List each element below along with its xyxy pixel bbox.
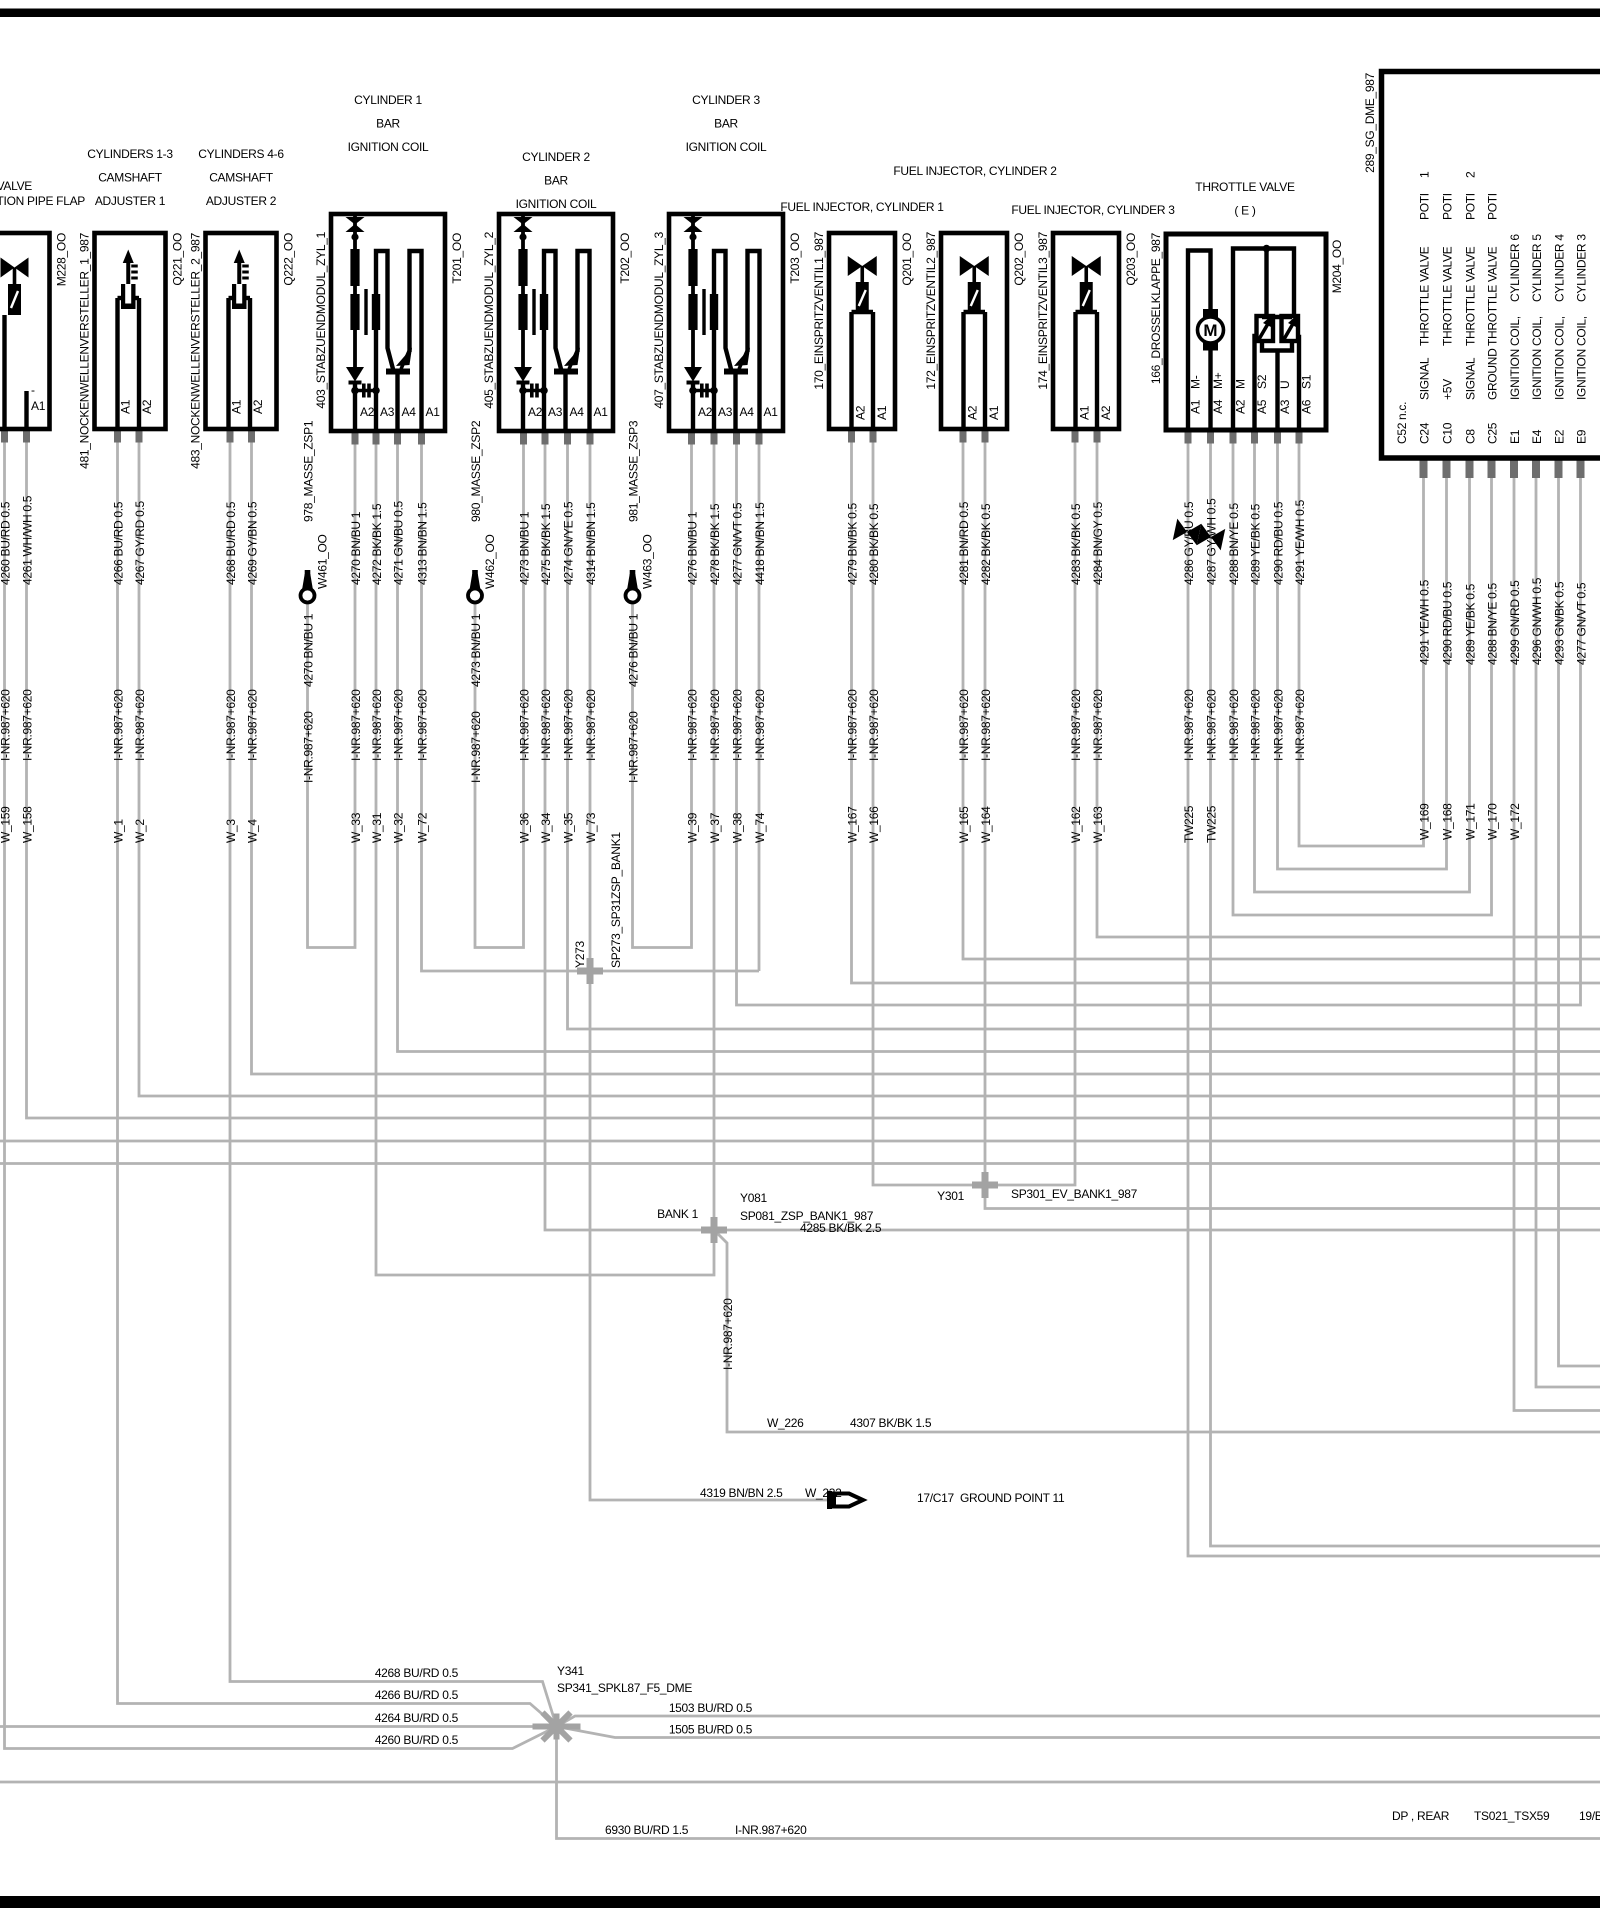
potentiometer 1 M204 <box>1257 316 1274 341</box>
svg-text:A2: A2 <box>698 405 713 419</box>
svg-text:W_158: W_158 <box>21 806 35 843</box>
svg-text:W_37: W_37 <box>708 812 722 843</box>
pin stubs Q202 <box>960 429 989 443</box>
svg-text:I-NR.987+620: I-NR.987+620 <box>731 689 745 761</box>
svg-text:I-NR.987+620: I-NR.987+620 <box>349 689 363 761</box>
svg-text:W461_OO: W461_OO <box>316 534 330 589</box>
wire full-width y=1782 <box>0 1781 1600 1784</box>
svg-text:4271 GN/BU 0.5: 4271 GN/BU 0.5 <box>392 501 406 585</box>
wire 4267 GY/RD Q221 A2 <box>139 429 1600 1096</box>
svg-text:CYLINDER 4: CYLINDER 4 <box>1553 234 1567 302</box>
ground terminal arrow 17/C17 <box>827 1491 863 1509</box>
svg-text:M: M <box>1234 379 1248 389</box>
label wire 4275 column <box>539 503 553 843</box>
svg-text:4299 GN/RD 0.5: 4299 GN/RD 0.5 <box>1508 580 1522 665</box>
label wire 4283 column <box>1069 503 1083 843</box>
svg-text:POTI: POTI <box>1441 193 1455 220</box>
svg-text:IGNITION COIL,: IGNITION COIL, <box>1575 316 1589 400</box>
svg-text:IGNITION COIL,: IGNITION COIL, <box>1553 316 1567 400</box>
svg-text:THROTTLE VALVE: THROTTLE VALVE <box>1486 246 1500 346</box>
wire 4289 YE/BK M204 A5 to DME C8 <box>1255 430 1470 892</box>
svg-text:A1: A1 <box>426 405 441 419</box>
svg-text:405_STABZUENDMODUL_ZYL_2: 405_STABZUENDMODUL_ZYL_2 <box>482 231 496 408</box>
svg-text:I-NR.987+620: I-NR.987+620 <box>562 689 576 761</box>
throttle valve M204 box <box>1166 234 1326 430</box>
svg-text:TW225: TW225 <box>1205 805 1219 843</box>
svg-text:I-NR.987+620: I-NR.987+620 <box>133 689 147 761</box>
svg-text:4286 GY/BU 0.5: 4286 GY/BU 0.5 <box>1182 501 1196 585</box>
wire 4260 BU/RD M228 pin <box>5 429 557 1749</box>
label masse wire 978 column <box>302 420 330 783</box>
wire 4272 BK/BK T201 A3 <box>376 431 714 1275</box>
svg-text:4276 BN/BU 1: 4276 BN/BU 1 <box>627 613 641 687</box>
svg-text:170_EINSPRITZVENTIL1_987: 170_EINSPRITZVENTIL1_987 <box>812 231 826 389</box>
svg-text:I-NR.987+620: I-NR.987+620 <box>1069 689 1083 761</box>
svg-text:W_33: W_33 <box>349 812 363 843</box>
svg-text:I-NR.987+620: I-NR.987+620 <box>302 711 316 783</box>
svg-text:4296 GN/WH 0.5: 4296 GN/WH 0.5 <box>1530 577 1544 665</box>
svg-text:CYLINDER 2: CYLINDER 2 <box>522 150 590 164</box>
svg-text:E9: E9 <box>1575 429 1589 444</box>
label DME pin E2 <box>1553 234 1567 444</box>
svg-text:4319 BN/BN 2.5: 4319 BN/BN 2.5 <box>700 1486 783 1500</box>
svg-text:1: 1 <box>1418 171 1432 178</box>
svg-text:DP , REAR: DP , REAR <box>1392 1809 1450 1823</box>
svg-text:S2: S2 <box>1255 374 1269 389</box>
svg-text:4281 BN/RD 0.5: 4281 BN/RD 0.5 <box>957 501 971 585</box>
svg-text:A1: A1 <box>594 405 609 419</box>
twisted-pair marker TW225 <box>1173 519 1226 551</box>
svg-text:W_166: W_166 <box>867 806 881 843</box>
svg-text:A2: A2 <box>251 399 265 414</box>
label wire 4418 column <box>753 502 767 843</box>
label wire 4270 column <box>349 511 363 843</box>
solenoid valve Q221 camshaft adjuster box <box>95 233 166 429</box>
svg-text:4289 YE/BK 0.5: 4289 YE/BK 0.5 <box>1249 503 1263 585</box>
wire 4278 BK/BK T203 A3 <box>713 431 716 1230</box>
svg-text:W_38: W_38 <box>731 812 745 843</box>
svg-text:I-NR.987+620: I-NR.987+620 <box>1293 689 1307 761</box>
svg-text:4272 BK/BK 1.5: 4272 BK/BK 1.5 <box>370 503 384 585</box>
label DME pin E1 <box>1508 234 1522 444</box>
label wire 4269 column <box>246 501 260 843</box>
wire 4261 WH/WH M228 A1 <box>27 429 1600 1118</box>
ignition coil T202 box <box>499 214 613 431</box>
label 6930 BU/RD <box>605 1823 807 1837</box>
svg-text:W_74: W_74 <box>753 812 767 843</box>
svg-text:W_168: W_168 <box>1441 803 1455 840</box>
wire 4274 GN/YE T202 A4 <box>568 431 1600 1029</box>
svg-text:W462_OO: W462_OO <box>483 534 497 589</box>
svg-text:172_EINSPRITZVENTIL2_987: 172_EINSPRITZVENTIL2_987 <box>924 231 938 389</box>
label wire 4286 column <box>1182 501 1196 843</box>
wire 4279 BN/BK Q201 A2 <box>852 429 1600 983</box>
svg-text:I-NR.987+620: I-NR.987+620 <box>584 689 598 761</box>
svg-text:4293 GN/BK 0.5: 4293 GN/BK 0.5 <box>1553 581 1567 665</box>
wire 4299 GN/RD DME E1 <box>1514 462 1600 1411</box>
fuel injector Q202 box <box>941 233 1007 429</box>
svg-text:W_39: W_39 <box>686 812 700 843</box>
svg-text:A1: A1 <box>1078 405 1092 420</box>
svg-text:I-NR.987+620: I-NR.987+620 <box>721 1298 735 1370</box>
svg-text:19/B: 19/B <box>1579 1809 1600 1823</box>
motor M204 <box>1203 309 1218 318</box>
wire 4314 BN/BN T202 A1 / SP273 ground drop <box>590 431 832 1500</box>
svg-text:CYLINDER 3: CYLINDER 3 <box>1575 234 1589 302</box>
svg-text:4280 BK/BK 0.5: 4280 BK/BK 0.5 <box>867 503 881 585</box>
svg-text:U: U <box>1278 381 1292 389</box>
svg-text:ADJUSTER 1: ADJUSTER 1 <box>95 194 166 208</box>
svg-text:4282 BK/BK 0.5: 4282 BK/BK 0.5 <box>979 503 993 585</box>
svg-text:174_EINSPRITZVENTIL3_987: 174_EINSPRITZVENTIL3_987 <box>1036 231 1050 389</box>
svg-text:4285 BK/BK 2.5: 4285 BK/BK 2.5 <box>800 1221 882 1235</box>
svg-text:403_STABZUENDMODUL_ZYL_1: 403_STABZUENDMODUL_ZYL_1 <box>314 231 328 408</box>
svg-text:I-NR.987+620: I-NR.987+620 <box>957 689 971 761</box>
svg-text:W_172: W_172 <box>1508 803 1522 840</box>
svg-text:A2: A2 <box>854 405 868 420</box>
wire 4270 BN/BU masse ZSP1 <box>308 431 356 948</box>
svg-text:A3: A3 <box>1278 399 1292 414</box>
svg-text:W_164: W_164 <box>979 806 993 843</box>
svg-text:A2: A2 <box>140 399 154 414</box>
svg-text:A1: A1 <box>875 405 889 420</box>
svg-text:Q221_OO: Q221_OO <box>171 233 185 286</box>
label wire 4276 column <box>686 511 700 843</box>
svg-text:-: - <box>31 383 35 397</box>
label Y301 splice <box>937 1187 1137 1203</box>
svg-text:Y341: Y341 <box>557 1664 584 1678</box>
label wire 4284 column <box>1091 501 1105 843</box>
svg-text:TS021_TSX59: TS021_TSX59 <box>1474 1809 1550 1823</box>
svg-text:FUEL INJECTOR, CYLINDER 3: FUEL INJECTOR, CYLINDER 3 <box>1011 203 1175 217</box>
wire 4418 BN/BN T203 A1 <box>758 431 761 971</box>
svg-text:M+: M+ <box>1211 372 1225 389</box>
svg-text:4273 BN/BU 1: 4273 BN/BU 1 <box>518 511 532 585</box>
label 4319 ground point <box>700 1486 1065 1505</box>
svg-text:S1: S1 <box>1300 374 1314 389</box>
label DME pin C24 <box>1418 171 1432 444</box>
svg-text:IGNITION COIL,: IGNITION COIL, <box>1508 316 1522 400</box>
svg-text:W_35: W_35 <box>562 812 576 843</box>
label DME wire 4277 column <box>1575 582 1589 665</box>
label wire 4268 column <box>224 501 238 843</box>
svg-text:4268 BU/RD 0.5: 4268 BU/RD 0.5 <box>375 1666 459 1680</box>
label DME wire 4296 column <box>1530 577 1544 665</box>
svg-text:6930 BU/RD 1.5: 6930 BU/RD 1.5 <box>605 1823 689 1837</box>
label Y341 splice <box>557 1664 692 1695</box>
pin stubs Q203 <box>1072 429 1101 443</box>
svg-text:Y301: Y301 <box>937 1189 964 1203</box>
wire entering page left y=1141 <box>0 1140 1600 1143</box>
wire 4287 GY/WH M204 A4 M+ <box>1211 430 1600 1546</box>
svg-text:4288 BN/YE 0.5: 4288 BN/YE 0.5 <box>1486 583 1500 665</box>
svg-text:4275 BK/BK 1.5: 4275 BK/BK 1.5 <box>539 503 553 585</box>
svg-text:CYLINDER 1: CYLINDER 1 <box>354 93 422 107</box>
label DME wire 4293 column <box>1553 581 1567 665</box>
wire 4264 BU/RD entering left <box>0 1725 557 1728</box>
svg-text:A4: A4 <box>402 405 417 419</box>
top border bar <box>0 9 1600 18</box>
svg-text:BAR: BAR <box>714 117 738 131</box>
svg-text:4307 BK/BK 1.5: 4307 BK/BK 1.5 <box>850 1416 932 1430</box>
svg-text:4276 BN/BU 1: 4276 BN/BU 1 <box>686 511 700 585</box>
svg-text:I-NR.987+620: I-NR.987+620 <box>846 689 860 761</box>
svg-text:Y081: Y081 <box>740 1191 767 1205</box>
svg-text:I-NR.987+620: I-NR.987+620 <box>1205 689 1219 761</box>
svg-text:SP301_EV_BANK1_987: SP301_EV_BANK1_987 <box>1011 1187 1138 1201</box>
svg-text:M-: M- <box>1189 375 1203 389</box>
svg-text:I-NR.987+620: I-NR.987+620 <box>867 689 881 761</box>
svg-text:Q202_OO: Q202_OO <box>1012 233 1026 286</box>
valve M228 induction pipe flap box <box>0 233 50 429</box>
svg-text:C52: C52 <box>1395 422 1409 444</box>
svg-text:A1: A1 <box>1189 399 1203 414</box>
svg-text:166_DROSSELKLAPPE_987: 166_DROSSELKLAPPE_987 <box>1149 232 1163 384</box>
label wire 4313 column <box>416 502 430 843</box>
svg-text:4278 BK/BK 1.5: 4278 BK/BK 1.5 <box>708 503 722 585</box>
svg-text:+5V: +5V <box>1441 379 1455 400</box>
label wire 4314 column <box>584 502 598 843</box>
svg-text:IGNITION COIL,: IGNITION COIL, <box>1530 316 1544 400</box>
svg-text:4269 GY/BN 0.5: 4269 GY/BN 0.5 <box>246 501 260 585</box>
svg-text:I-NR.987+620: I-NR.987+620 <box>627 711 641 783</box>
pin stubs Q221 <box>114 429 143 443</box>
svg-text:I-NR.987+620: I-NR.987+620 <box>469 711 483 783</box>
wire 4293 GN/BK DME E2 <box>1559 462 1600 1366</box>
svg-text:W_2: W_2 <box>133 819 147 843</box>
svg-text:483_NOCKENWELLENVERSTELLER_2_9: 483_NOCKENWELLENVERSTELLER_2_987 <box>189 232 203 468</box>
svg-text:4261 WH/WH 0.5: 4261 WH/WH 0.5 <box>21 495 35 585</box>
svg-text:I-NR.987+620: I-NR.987+620 <box>686 689 700 761</box>
svg-text:C10: C10 <box>1441 422 1455 444</box>
svg-text:2: 2 <box>1464 171 1478 178</box>
wire 4313 BN/BN T201 A1 <box>422 431 760 971</box>
svg-text:I-NR.987+620: I-NR.987+620 <box>708 689 722 761</box>
svg-text:4289 YE/BK 0.5: 4289 YE/BK 0.5 <box>1464 583 1478 665</box>
ring terminal W462 <box>468 570 482 603</box>
wire 1505 BU/RD splice output <box>557 1727 1600 1738</box>
svg-text:I-NR.987+620: I-NR.987+620 <box>735 1823 807 1837</box>
wire 4271 GN/BU T201 A4 <box>398 431 1600 1052</box>
svg-text:SP341_SPKL87_F5_DME: SP341_SPKL87_F5_DME <box>557 1681 692 1695</box>
label DME wire 4288 column <box>1486 583 1500 840</box>
wire 1503 BU/RD splice output <box>557 1716 1600 1727</box>
label wire 4261 column <box>21 495 35 843</box>
label DME pin E4 <box>1530 234 1544 444</box>
pin stubs T203 <box>688 431 763 445</box>
svg-text:POTI: POTI <box>1418 193 1432 220</box>
svg-text:W_232: W_232 <box>805 1486 842 1500</box>
pin stubs T201 <box>352 431 426 445</box>
svg-text:W_162: W_162 <box>1069 806 1083 843</box>
bottom border bar <box>0 1896 1600 1908</box>
label DME pin C25 <box>1486 193 1500 444</box>
svg-text:W_226: W_226 <box>767 1416 804 1430</box>
label wire 4281 column <box>957 501 971 843</box>
svg-text:4290 RD/BU 0.5: 4290 RD/BU 0.5 <box>1441 581 1455 665</box>
svg-text:E4: E4 <box>1530 429 1544 444</box>
svg-text:SIGNAL: SIGNAL <box>1464 357 1478 400</box>
svg-text:C8: C8 <box>1464 429 1478 444</box>
svg-text:I-NR.987+620: I-NR.987+620 <box>370 689 384 761</box>
svg-text:4277 GN/VT 0.5: 4277 GN/VT 0.5 <box>731 502 745 585</box>
svg-text:T202_OO: T202_OO <box>618 233 632 284</box>
svg-text:4266 BU/RD 0.5: 4266 BU/RD 0.5 <box>375 1688 459 1702</box>
svg-text:I-NR.987+620: I-NR.987+620 <box>1272 689 1286 761</box>
svg-text:W_31: W_31 <box>370 812 384 843</box>
svg-text:4313 BN/BN 1.5: 4313 BN/BN 1.5 <box>416 502 430 585</box>
label wire 4273 column <box>518 511 532 843</box>
svg-text:4270 BN/BU 1: 4270 BN/BU 1 <box>349 511 363 585</box>
svg-text:IGNITION COIL: IGNITION COIL <box>348 140 429 154</box>
label wire 4287 column <box>1205 498 1219 843</box>
label wire 4278 column <box>708 503 722 843</box>
svg-text:4274 GN/YE 0.5: 4274 GN/YE 0.5 <box>562 501 576 585</box>
label masse wire 981 column <box>627 420 655 783</box>
label DME wire 4289 column <box>1464 583 1478 840</box>
label Y273 SP273 <box>573 832 623 968</box>
svg-text:E1: E1 <box>1508 429 1522 444</box>
wire 4296 GN/WH DME E4 <box>1536 462 1600 1387</box>
svg-text:4277 GN/VT 0.5: 4277 GN/VT 0.5 <box>1575 582 1589 665</box>
svg-text:4270 BN/BU 1: 4270 BN/BU 1 <box>302 613 316 687</box>
pin stubs Q222 <box>227 429 256 443</box>
svg-text:FUEL INJECTOR, CYLINDER 2: FUEL INJECTOR, CYLINDER 2 <box>893 164 1057 178</box>
junction Y301 SP301_EV_BANK1_987 <box>972 1172 998 1198</box>
svg-text:BANK 1: BANK 1 <box>657 1207 699 1221</box>
svg-text:W_159: W_159 <box>0 806 13 843</box>
svg-text:981_MASSE_ZSP3: 981_MASSE_ZSP3 <box>627 420 641 522</box>
svg-text:A2: A2 <box>1234 399 1248 414</box>
wire 4269 GY/BN Q222 A2 <box>252 429 1600 1074</box>
wire 4290 RD/BU M204 A3 to DME C10 <box>1278 430 1447 869</box>
svg-text:THROTTLE VALVE: THROTTLE VALVE <box>1418 246 1432 346</box>
pin stubs M228 <box>1 429 30 443</box>
svg-text:M: M <box>1203 321 1217 340</box>
svg-text:I-NR.987+620: I-NR.987+620 <box>1182 689 1196 761</box>
wire 4277 GN/VT T203 A4 to DME E9 <box>737 431 1581 1005</box>
svg-text:T201_OO: T201_OO <box>450 233 464 284</box>
svg-text:407_STABZUENDMODUL_ZYL_3: 407_STABZUENDMODUL_ZYL_3 <box>652 231 666 408</box>
svg-text:CYLINDER 3: CYLINDER 3 <box>692 93 760 107</box>
svg-text:W_36: W_36 <box>518 812 532 843</box>
svg-text:T203_OO: T203_OO <box>788 233 802 284</box>
svg-text:W_3: W_3 <box>224 819 238 843</box>
svg-text:1505 BU/RD 0.5: 1505 BU/RD 0.5 <box>669 1723 753 1737</box>
svg-text:4268 BU/RD 0.5: 4268 BU/RD 0.5 <box>224 501 238 585</box>
label wire 4291 column <box>1293 499 1307 761</box>
label wire 4279 column <box>846 503 860 843</box>
svg-text:POTI: POTI <box>1486 193 1500 220</box>
label DME wire 4291 column <box>1418 579 1432 840</box>
svg-text:289_SG_DME_987: 289_SG_DME_987 <box>1363 72 1377 172</box>
label BANK 1 / Y081 splice <box>657 1191 882 1235</box>
svg-text:I-NR.987+620: I-NR.987+620 <box>246 689 260 761</box>
label wire 4289 column <box>1249 503 1263 761</box>
svg-text:A2: A2 <box>1099 405 1113 420</box>
wire 4284 BN/GY Q203 A2 <box>1097 429 1600 937</box>
svg-text:M204_OO: M204_OO <box>1330 240 1344 293</box>
svg-text:I-NR.987+620: I-NR.987+620 <box>21 689 35 761</box>
wire 4273 BN/BU masse ZSP2 <box>475 431 524 948</box>
svg-text:BAR: BAR <box>544 174 568 188</box>
svg-text:W_34: W_34 <box>539 812 553 843</box>
svg-text:4287 GY/WH 0.5: 4287 GY/WH 0.5 <box>1205 498 1219 585</box>
svg-text:4260 BU/RD 0.5: 4260 BU/RD 0.5 <box>375 1733 459 1747</box>
svg-text:4273 BN/BU 1: 4273 BN/BU 1 <box>469 613 483 687</box>
wire 4268 BU/RD Q222 A1 <box>230 429 557 1727</box>
label wire 4282 column <box>979 503 993 843</box>
svg-text:17/C17 GROUND POINT 11: 17/C17 GROUND POINT 11 <box>917 1491 1065 1505</box>
wire SP081 drop to 4307 BK/BK <box>714 1230 1600 1432</box>
junction Y273 SP273_SP31ZSP_BANK1 <box>577 958 603 984</box>
svg-text:TION PIPE FLAP: TION PIPE FLAP <box>0 194 85 208</box>
svg-text:4284 BN/GY 0.5: 4284 BN/GY 0.5 <box>1091 501 1105 585</box>
svg-text:Q222_OO: Q222_OO <box>282 233 296 286</box>
svg-text:I-NR.987+620: I-NR.987+620 <box>224 689 238 761</box>
svg-text:W463_OO: W463_OO <box>641 534 655 589</box>
label DME pin C10 <box>1441 193 1455 444</box>
wire 4266 BU/RD Q221 A1 <box>118 429 557 1727</box>
svg-text:M228_OO: M228_OO <box>55 233 69 286</box>
svg-text:4314 BN/BN 1.5: 4314 BN/BN 1.5 <box>584 502 598 585</box>
label DME pin C52 <box>1395 402 1409 444</box>
svg-text:4288 BN/YE 0.5: 4288 BN/YE 0.5 <box>1227 503 1241 585</box>
svg-text:W_171: W_171 <box>1464 803 1478 840</box>
svg-text:W_165: W_165 <box>957 806 971 843</box>
wire 4288 BN/YE M204 A2 to DME C25 <box>1233 430 1492 915</box>
label wire 4274 column <box>562 501 576 843</box>
svg-text:A5: A5 <box>1255 399 1269 414</box>
svg-text:A3: A3 <box>380 405 395 419</box>
svg-text:POTI: POTI <box>1464 193 1478 220</box>
label wire 4280 column <box>867 503 881 843</box>
svg-text:4418 BN/BN 1.5: 4418 BN/BN 1.5 <box>753 502 767 585</box>
wire 4280 BK/BK Q201 A1 <box>873 429 1075 1185</box>
svg-text:980_MASSE_ZSP2: 980_MASSE_ZSP2 <box>469 420 483 522</box>
svg-text:IGNITION COIL: IGNITION COIL <box>686 140 767 154</box>
svg-text:TW225: TW225 <box>1182 805 1196 843</box>
svg-text:C25: C25 <box>1486 422 1500 444</box>
svg-text:I-NR.987+620: I-NR.987+620 <box>0 689 13 761</box>
svg-text:I-NR.987+620: I-NR.987+620 <box>1249 689 1263 761</box>
label DME pin C8 <box>1464 171 1478 444</box>
svg-text:4266 BU/RD 0.5: 4266 BU/RD 0.5 <box>112 501 126 585</box>
solenoid valve Q222 camshaft adjuster box <box>206 233 277 429</box>
svg-text:CYLINDERS 4-6: CYLINDERS 4-6 <box>198 147 284 161</box>
svg-text:W_1: W_1 <box>112 819 126 843</box>
svg-text:SIGNAL: SIGNAL <box>1418 357 1432 400</box>
label wire 4267 column <box>133 501 147 843</box>
svg-text:I-NR.987+620: I-NR.987+620 <box>1227 689 1241 761</box>
svg-text:A4: A4 <box>1211 399 1225 414</box>
svg-text:1503 BU/RD 0.5: 1503 BU/RD 0.5 <box>669 1701 753 1715</box>
svg-text:I-NR.987+620: I-NR.987+620 <box>112 689 126 761</box>
label W_226 4307 <box>767 1416 932 1430</box>
wire 4291 YE/WH M204 A6 to DME C24 <box>1299 430 1424 846</box>
svg-text:W_4: W_4 <box>246 819 260 843</box>
wire 4286 GY/BU M204 A1 M- <box>1188 430 1600 1556</box>
svg-text:A3: A3 <box>718 405 733 419</box>
label wire 4266 column <box>112 501 126 843</box>
svg-text:I-NR.987+620: I-NR.987+620 <box>539 689 553 761</box>
label sheet footer DP REAR <box>1392 1809 1600 1823</box>
svg-text:W_167: W_167 <box>846 806 860 843</box>
svg-text:A4: A4 <box>570 405 585 419</box>
svg-text:W_32: W_32 <box>392 812 406 843</box>
svg-text:( E ): ( E ) <box>1234 204 1255 218</box>
label DME wire 4290 column <box>1441 581 1455 840</box>
